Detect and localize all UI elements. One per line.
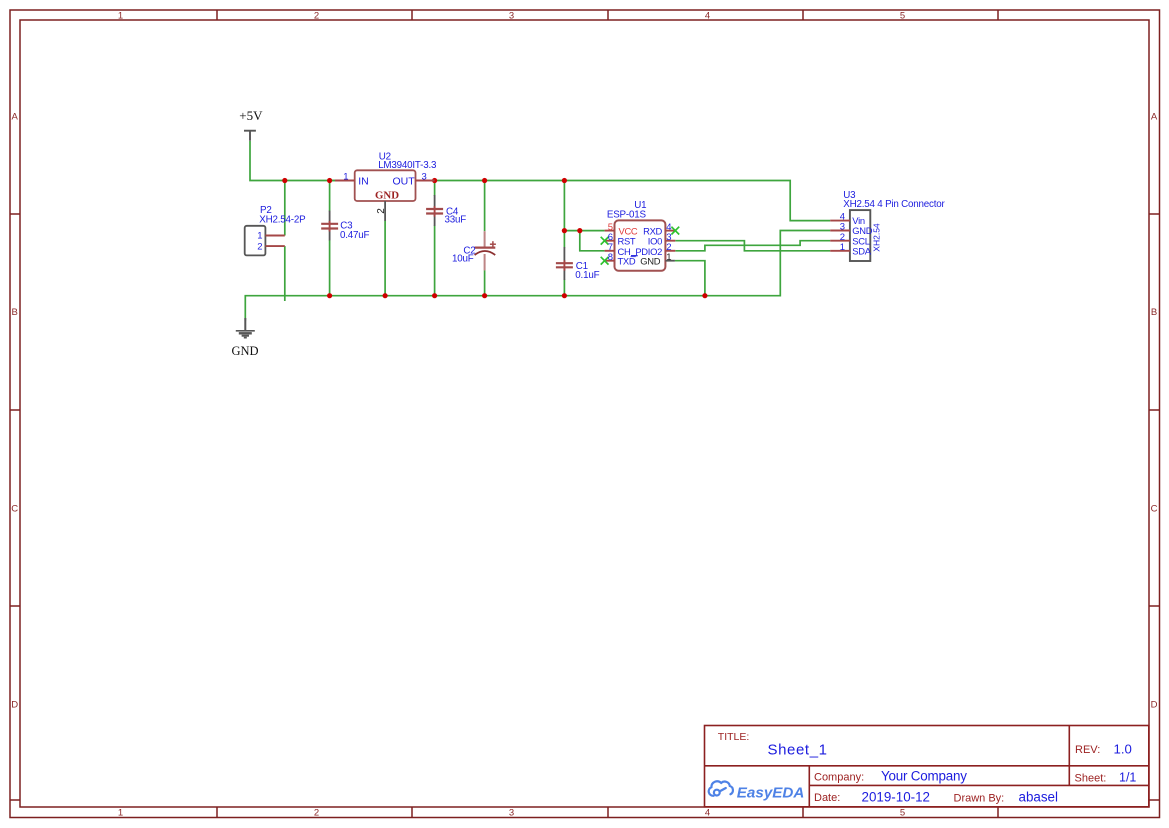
svg-text:XH2.54-2P: XH2.54-2P [259,214,306,225]
svg-text:3: 3 [509,10,514,21]
svg-text:Sheet:: Sheet: [1075,773,1107,785]
U2 pin 2 GND stem [384,201,386,221]
wire C3 column [329,181,331,296]
svg-text:IN: IN [358,176,369,188]
U1 pin 6 RST [605,240,615,242]
wire CH_PD branch to U1 pin7 [580,231,605,251]
svg-text:C: C [11,504,18,515]
svg-text:GND: GND [375,189,399,201]
svg-text:Drawn By:: Drawn By: [954,793,1005,805]
module U1 ESP-01S [601,200,680,270]
capacitor C1 [556,247,600,281]
wire C4 column [434,181,436,296]
junction node dots [282,178,707,298]
svg-text:5: 5 [900,807,905,818]
svg-text:4: 4 [705,807,710,818]
wire IO2 to SCL [675,241,830,251]
U1 pin 7 CH_PD [605,250,615,252]
voltage regulator U2 [335,152,437,221]
svg-text:TITLE:: TITLE: [718,731,750,743]
svg-text:1: 1 [343,171,348,182]
svg-text:8: 8 [608,252,613,263]
svg-text:10uF: 10uF [452,254,474,265]
frame row labels [11,112,1158,711]
wire P2 pin1 to +5V [284,181,286,236]
U1 pin 1 GND [665,260,675,262]
wire C1 column [563,181,565,296]
capacitor C2 polarized [452,231,496,270]
U1 no-connect X pin 8 [601,257,609,265]
svg-text:33uF: 33uF [445,214,467,225]
U1 no-connect X pin 4 [671,227,679,235]
wire IO0 to SDA [675,241,830,251]
svg-text:REV:: REV: [1075,744,1100,756]
wire VCC branch to U1 pin5 [564,230,604,232]
svg-text:Your Company: Your Company [881,769,967,784]
svg-text:2: 2 [257,241,262,252]
svg-text:GND: GND [232,344,259,358]
capacitor C4 [426,195,466,226]
U3 pin 2 [830,240,850,242]
svg-text:4: 4 [705,10,710,21]
capacitor C3 [321,211,369,242]
svg-text:1.0: 1.0 [1114,741,1132,756]
svg-text:2: 2 [314,807,319,818]
EasyEDA logo cloud icon [709,781,733,796]
ground symbol GND [236,318,255,338]
svg-text:GND: GND [640,256,660,267]
svg-text:1: 1 [118,10,123,21]
wire C2 column [484,181,486,296]
svg-text:A: A [12,112,19,123]
svg-text:D: D [11,700,18,711]
svg-text:3: 3 [509,807,514,818]
U1 pin 4 RXD [665,230,675,232]
svg-text:LM3940IT-3.3: LM3940IT-3.3 [378,160,437,171]
svg-text:TXD: TXD [618,256,636,267]
svg-text:0.1uF: 0.1uF [575,270,599,281]
svg-text:Company:: Company: [814,771,864,783]
wire GND net bottom bus [245,231,830,321]
svg-text:2: 2 [376,208,387,214]
svg-text:XH2.54: XH2.54 [872,223,882,252]
U2 pin 3 OUT [416,180,435,182]
svg-text:B: B [1151,307,1157,318]
U2 pin 1 IN [335,180,355,182]
svg-text:3: 3 [422,171,427,182]
frame column labels top [118,10,905,818]
svg-text:0.47uF: 0.47uF [340,230,370,241]
power symbol +5V [244,131,256,141]
svg-text:abasel: abasel [1019,789,1058,804]
U1 pin 2 IO2 [665,250,675,252]
svg-text:ESP-01S: ESP-01S [607,209,647,220]
P2 pin 2 [265,245,284,247]
svg-text:EasyEDA: EasyEDA [737,785,805,802]
title block [705,726,1149,807]
connector P2 [245,205,306,255]
svg-text:5: 5 [900,10,905,21]
U1 pin 3 IO0 [665,240,675,242]
U1 pin 8 TXD [605,260,615,262]
svg-text:SDA: SDA [852,245,871,256]
U3 pin 1 [830,250,850,252]
svg-text:A: A [1151,112,1158,123]
svg-text:1: 1 [840,242,845,253]
wire +5V net top bus [250,141,830,221]
svg-text:OUT: OUT [393,176,416,188]
U3 pin 3 [830,230,850,232]
connector U3 [830,190,945,261]
wire U2 pin1 [330,180,335,182]
svg-text:C: C [1151,504,1158,515]
svg-text:D: D [1151,700,1158,711]
wire U1 pin1 GND to bottom bus [675,261,705,296]
U1 no-connect X pin 6 [601,237,609,245]
U1 pin 5 VCC [605,230,615,232]
svg-text:B: B [12,307,18,318]
wire U2 pin2 to GND [384,221,386,296]
U3 pin 4 [830,220,850,222]
svg-text:1: 1 [257,231,262,242]
svg-text:2019-10-12: 2019-10-12 [862,790,931,805]
svg-text:+5V: +5V [239,108,263,123]
wire P2 pin2 down [284,246,286,301]
svg-text:1: 1 [118,807,123,818]
svg-text:Sheet_1: Sheet_1 [768,741,828,758]
svg-text:1: 1 [666,252,671,263]
svg-text:XH2.54 4 Pin Connector: XH2.54 4 Pin Connector [843,199,945,210]
svg-text:Date:: Date: [814,792,840,804]
svg-text:1/1: 1/1 [1119,771,1136,785]
svg-text:2: 2 [314,10,319,21]
P2 pin 1 [265,235,284,237]
